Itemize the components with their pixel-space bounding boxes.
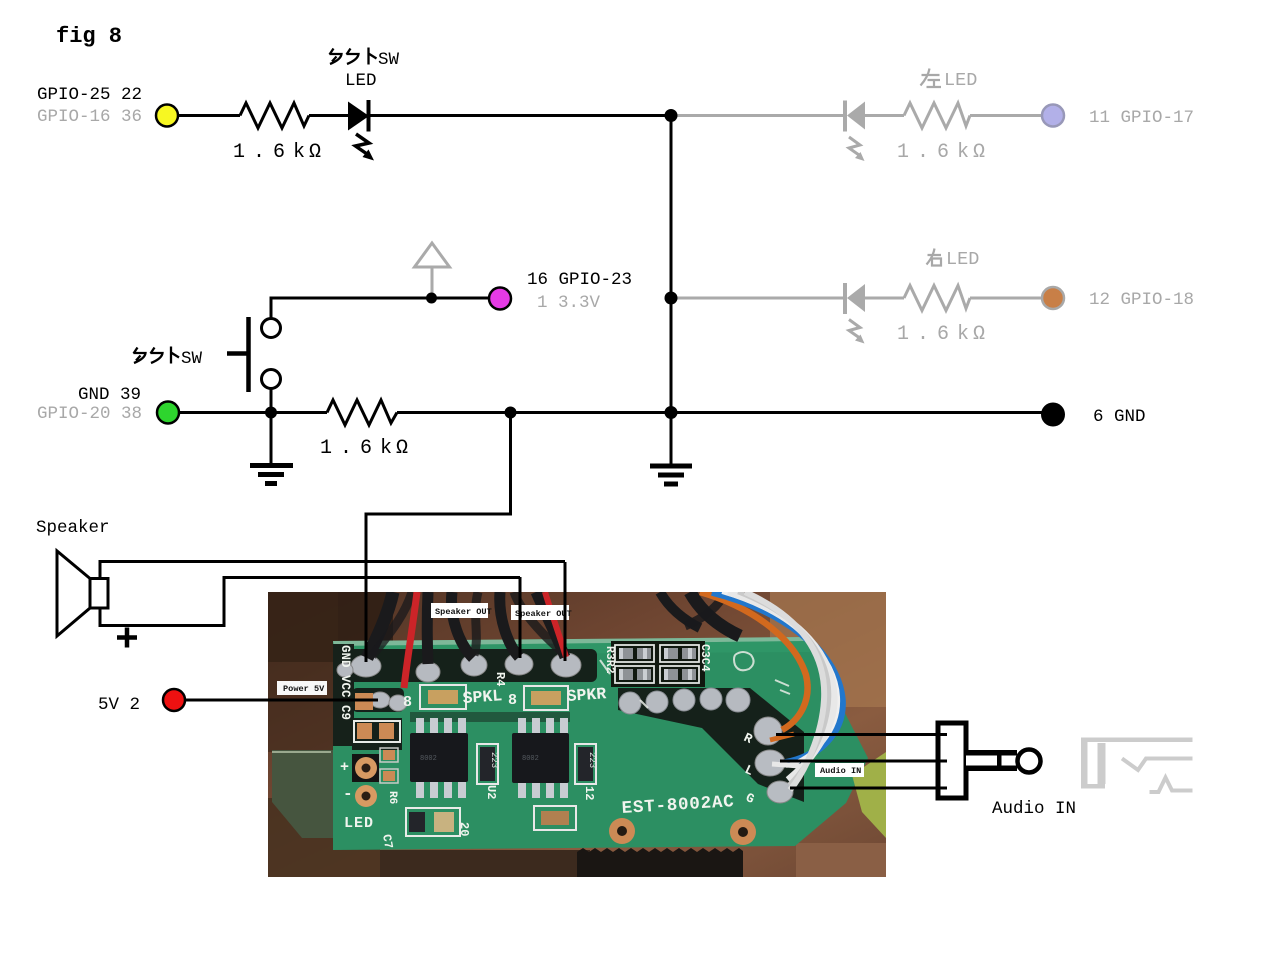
- svg-text:Power 5V: Power 5V: [283, 684, 325, 694]
- svg-text:6 GND: 6 GND: [1093, 407, 1146, 427]
- svg-text:k: k: [380, 437, 392, 460]
- svg-text:Ω: Ω: [396, 437, 408, 460]
- svg-text:SW: SW: [181, 349, 203, 369]
- svg-text:GPIO-16 36: GPIO-16 36: [37, 107, 142, 127]
- svg-text:Speaker OUT: Speaker OUT: [435, 607, 492, 617]
- svg-text:GPIO-25 22: GPIO-25 22: [37, 85, 142, 105]
- svg-text:223: 223: [489, 752, 499, 768]
- svg-text:Audio IN: Audio IN: [992, 799, 1076, 819]
- svg-text:223: 223: [587, 752, 597, 768]
- svg-text:LED: LED: [946, 249, 979, 270]
- svg-text:Audio IN: Audio IN: [820, 766, 861, 776]
- svg-text:5V 2: 5V 2: [98, 695, 140, 715]
- svg-text:1: 1: [233, 141, 245, 164]
- svg-text:Ω: Ω: [973, 141, 985, 164]
- svg-text:1: 1: [897, 141, 909, 164]
- svg-text:8002: 8002: [522, 755, 539, 763]
- svg-text:GND VCC C9: GND VCC C9: [338, 645, 352, 720]
- svg-text:.: .: [917, 141, 929, 164]
- svg-text:+: +: [340, 759, 349, 776]
- svg-text:Ω: Ω: [973, 323, 985, 346]
- svg-text:6: 6: [937, 141, 949, 164]
- svg-text:R3R2: R3R2: [603, 646, 616, 674]
- svg-text:.: .: [340, 437, 352, 460]
- svg-text:R6: R6: [386, 791, 398, 804]
- svg-text:LED: LED: [944, 70, 977, 91]
- svg-text:U2: U2: [484, 785, 498, 799]
- svg-text:6: 6: [273, 141, 285, 164]
- svg-text:8: 8: [403, 694, 412, 711]
- svg-text:1: 1: [897, 323, 909, 346]
- svg-text:6: 6: [360, 437, 372, 460]
- svg-text:LED: LED: [344, 815, 374, 832]
- svg-text:Ω: Ω: [309, 141, 321, 164]
- svg-text:LED: LED: [345, 71, 377, 91]
- svg-text:SPKR: SPKR: [566, 684, 607, 706]
- svg-text:SW: SW: [378, 50, 400, 70]
- svg-text:Speaker: Speaker: [36, 518, 110, 538]
- svg-text:k: k: [957, 323, 969, 346]
- svg-text:1 3.3V: 1 3.3V: [537, 293, 601, 313]
- svg-text:11 GPIO-17: 11 GPIO-17: [1089, 108, 1194, 128]
- svg-text:C3C4: C3C4: [698, 644, 711, 672]
- svg-text:GND 39: GND 39: [78, 385, 141, 405]
- svg-text:GPIO-20 38: GPIO-20 38: [37, 404, 142, 424]
- svg-text:8002: 8002: [420, 755, 437, 763]
- svg-text:1: 1: [320, 437, 332, 460]
- svg-text:.: .: [917, 323, 929, 346]
- svg-text:16 GPIO-23: 16 GPIO-23: [527, 270, 632, 290]
- svg-text:12 GPIO-18: 12 GPIO-18: [1089, 290, 1194, 310]
- svg-text:R4: R4: [493, 672, 507, 686]
- svg-text:k: k: [293, 141, 305, 164]
- svg-text:6: 6: [937, 323, 949, 346]
- svg-text:Speaker OUT: Speaker OUT: [515, 609, 572, 619]
- svg-text:k: k: [957, 141, 969, 164]
- svg-text:fig 8: fig 8: [56, 24, 122, 49]
- svg-text:8: 8: [508, 692, 517, 709]
- svg-text:12: 12: [582, 786, 596, 800]
- svg-text:C7: C7: [379, 833, 395, 850]
- svg-text:SPKL: SPKL: [462, 686, 503, 708]
- svg-text:.: .: [253, 141, 265, 164]
- svg-text:-: -: [343, 785, 353, 803]
